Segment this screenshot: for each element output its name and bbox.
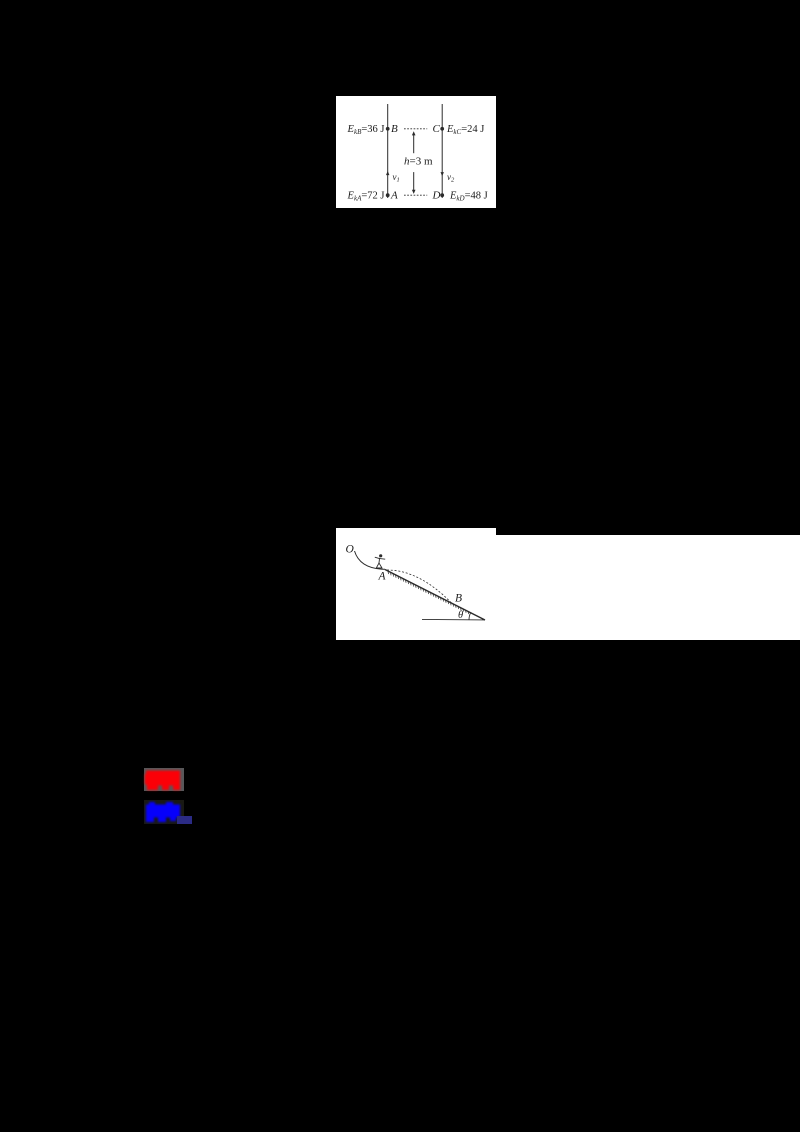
- svg-text:D: D: [432, 190, 441, 202]
- wire left vertical track: [387, 104, 389, 198]
- wire slope incline A to apex: [385, 570, 485, 621]
- arrowhead v2 down: [441, 172, 444, 176]
- figure 2 drawing: [336, 528, 496, 640]
- svg-text:EkB=36 J: EkB=36 J: [347, 124, 385, 136]
- wire right vertical track: [441, 104, 443, 198]
- svg-text:C: C: [433, 123, 441, 135]
- figure 2 white panel right: [496, 535, 800, 640]
- wire h arrow lower segment: [413, 172, 415, 192]
- red glyph blob: [145, 771, 180, 791]
- svg-text:h=3 m: h=3 m: [404, 155, 433, 167]
- arrowhead h down: [412, 190, 416, 194]
- svg-text:A: A: [390, 190, 398, 202]
- svg-text:EkA=72 J: EkA=72 J: [347, 191, 385, 203]
- wire dashed trajectory A to B: [387, 570, 452, 604]
- arrowhead v1 up: [386, 171, 389, 175]
- figure 2 white panel left: [336, 528, 496, 640]
- node C dot: [440, 127, 444, 131]
- answer badge (red): [144, 768, 183, 791]
- skier stick figure: [375, 554, 385, 568]
- wire dashed level A-D: [404, 194, 427, 196]
- figure 1 drawing: [336, 96, 496, 208]
- svg-text:B: B: [455, 593, 462, 605]
- node A dot: [386, 193, 390, 197]
- wire dashed level B-C: [404, 128, 427, 130]
- wire ground line: [422, 618, 485, 621]
- svg-text:A: A: [378, 571, 387, 583]
- node B dot: [386, 127, 390, 131]
- svg-text:O: O: [346, 544, 355, 556]
- analysis badge (blue): [144, 800, 184, 824]
- svg-text:EkC=24 J: EkC=24 J: [446, 124, 484, 136]
- wire slope hatching: [388, 572, 469, 615]
- arrowhead h up: [412, 131, 416, 135]
- navy underline chip: [177, 816, 192, 824]
- svg-text:v1: v1: [393, 172, 400, 184]
- svg-text:EkD=48 J: EkD=48 J: [449, 191, 488, 203]
- figure 1 white panel: [336, 96, 496, 208]
- svg-text:v2: v2: [447, 172, 455, 184]
- blue glyph blob: [146, 802, 180, 822]
- node D dot: [440, 193, 444, 197]
- svg-text:B: B: [391, 123, 398, 135]
- svg-text:θ: θ: [458, 610, 463, 621]
- angle arc theta: [469, 612, 471, 619]
- wire curved approach from O: [355, 551, 386, 569]
- wire h arrow upper segment: [413, 134, 415, 154]
